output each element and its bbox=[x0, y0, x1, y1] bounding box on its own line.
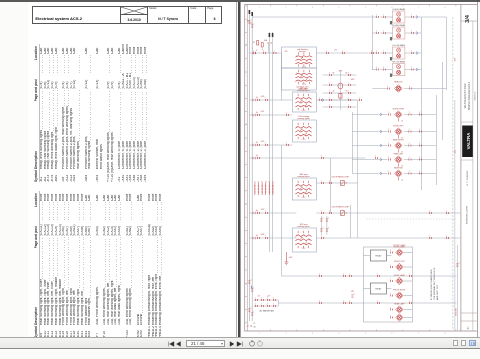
svg-text:2 5 6: 2 5 6 bbox=[301, 110, 305, 112]
svg-text:REAR RIGHT: REAR RIGHT bbox=[392, 138, 404, 141]
bus tap marks lower left bbox=[248, 280, 256, 329]
svg-text:-X1: -X1 bbox=[334, 50, 337, 52]
svg-text:1: 1 bbox=[376, 31, 377, 33]
svg-text:1: 1 bbox=[409, 86, 410, 88]
svg-text:1: 1 bbox=[383, 51, 384, 53]
svg-text:-X59: -X59 bbox=[454, 150, 456, 154]
svg-text:WORK RIGHT: WORK RIGHT bbox=[392, 108, 405, 110]
svg-text:5: 5 bbox=[309, 239, 310, 241]
wire vertical x454 bbox=[453, 100, 455, 330]
title column info text bbox=[464, 81, 476, 329]
svg-text:1: 1 bbox=[348, 83, 349, 85]
relay K1 box with flashing function bbox=[281, 47, 316, 69]
svg-text:1: 1 bbox=[257, 98, 258, 100]
svg-text:1: 1 bbox=[348, 91, 349, 93]
svg-text:RH LOW BEAM: RH LOW BEAM bbox=[392, 61, 405, 64]
svg-text:1: 1 bbox=[429, 236, 430, 238]
svg-text:1: 1 bbox=[377, 274, 378, 276]
svg-text:1: 1 bbox=[329, 98, 330, 100]
connector bus taps bottom bbox=[248, 308, 254, 316]
svg-text:3: 3 bbox=[312, 333, 313, 335]
svg-text:5: 5 bbox=[309, 102, 310, 104]
svg-text:1: 1 bbox=[322, 218, 323, 220]
svg-text:1: 1 bbox=[411, 31, 412, 33]
wire bus pair 15/56 bbox=[267, 32, 273, 252]
connector X31 bbox=[257, 111, 264, 116]
connector pairs small scattered bbox=[286, 51, 379, 304]
connector stacks x320 y213-238 bbox=[320, 216, 329, 235]
svg-text:2 5 6: 2 5 6 bbox=[301, 197, 305, 199]
svg-text:2: 2 bbox=[296, 235, 297, 237]
title cell Electrical system ACS.2 bbox=[33, 7, 120, 23]
svg-text:1: 1 bbox=[390, 315, 391, 317]
svg-text:RELAY: RELAY bbox=[375, 288, 382, 291]
svg-text:1: 1 bbox=[267, 298, 268, 300]
svg-text:1: 1 bbox=[376, 51, 377, 53]
svg-text:WORK LEFT: WORK LEFT bbox=[393, 125, 404, 127]
svg-text:RH HIGH BEAM: RH HIGH BEAM bbox=[392, 24, 406, 27]
svg-text:LED MARKER AIR: LED MARKER AIR bbox=[258, 310, 274, 313]
svg-text:WORKING LIGHTS: WORKING LIGHTS bbox=[466, 205, 468, 224]
svg-text:-X57: -X57 bbox=[260, 209, 264, 211]
wire vertical x357 bbox=[356, 100, 358, 238]
svg-text:1: 1 bbox=[267, 304, 268, 306]
svg-text:THE NORMAL DUTTER LIGHTS: THE NORMAL DUTTER LIGHTS bbox=[432, 267, 435, 300]
svg-text:a: a bbox=[252, 48, 253, 50]
svg-text:2: 2 bbox=[296, 185, 297, 187]
svg-text:1: 1 bbox=[408, 129, 409, 131]
svg-text:1: 1 bbox=[376, 67, 377, 69]
svg-text:VALTRA: VALTRA bbox=[466, 133, 471, 150]
svg-text:5: 5 bbox=[309, 189, 310, 191]
svg-text:1: 1 bbox=[250, 280, 251, 282]
VALTRA logo bbox=[462, 126, 473, 158]
front lamp group enclosure bbox=[363, 244, 412, 322]
svg-text:1: 1 bbox=[383, 15, 384, 17]
svg-text:2 5 6: 2 5 6 bbox=[302, 84, 306, 86]
svg-text:1: 1 bbox=[348, 105, 349, 107]
svg-text:1: 1 bbox=[257, 113, 258, 115]
svg-text:1: 1 bbox=[328, 218, 329, 220]
svg-text:1: 1 bbox=[383, 67, 384, 69]
svg-text:1: 1 bbox=[419, 171, 420, 173]
svg-text:1: 1 bbox=[408, 157, 409, 159]
svg-text:1: 1 bbox=[411, 51, 412, 53]
svg-text:1: 1 bbox=[250, 20, 251, 22]
svg-text:2 5 6: 2 5 6 bbox=[301, 139, 305, 141]
svg-text:1: 1 bbox=[343, 274, 344, 276]
svg-text:30: 30 bbox=[332, 91, 334, 93]
connector X58 bbox=[257, 234, 267, 239]
lamp E31 bbox=[390, 261, 412, 271]
model cell N / T Syncro bbox=[147, 7, 188, 23]
wire vertical x457 bbox=[456, 245, 458, 330]
svg-text:GROUND: GROUND bbox=[455, 307, 457, 316]
connectors on feed wires left bbox=[319, 156, 345, 304]
page navigation controls bbox=[167, 340, 267, 348]
svg-text:1: 1 bbox=[286, 113, 287, 115]
svg-text:2: 2 bbox=[285, 333, 286, 335]
svg-text:3/4: 3/4 bbox=[465, 14, 471, 23]
wire vertical x350 bbox=[349, 205, 351, 238]
wire feed y145 bbox=[249, 144, 292, 146]
component table group A (rotated) bbox=[33, 44, 229, 182]
svg-text:1: 1 bbox=[257, 156, 258, 158]
svg-text:1: 1 bbox=[261, 304, 262, 306]
svg-text:30A: 30A bbox=[263, 39, 267, 42]
svg-text:1: 1 bbox=[388, 157, 389, 159]
svg-text:86: 86 bbox=[332, 73, 334, 75]
svg-text:+T2: +T2 bbox=[257, 296, 260, 298]
svg-text:-X30: -X30 bbox=[260, 96, 264, 98]
svg-text:1: 1 bbox=[265, 98, 266, 100]
svg-text:1: 1 bbox=[253, 312, 254, 314]
svg-text:1: 1 bbox=[328, 228, 329, 230]
svg-text:30: 30 bbox=[345, 213, 347, 215]
svg-text:-X31: -X31 bbox=[260, 111, 264, 113]
lamp E15 lh high beam bbox=[372, 8, 421, 24]
svg-text:1: 1 bbox=[388, 171, 389, 173]
revision cell with crossed box and date bbox=[120, 7, 147, 23]
svg-text:1: 1 bbox=[273, 304, 274, 306]
svg-text:1: 1 bbox=[319, 274, 320, 276]
svg-text:1: 1 bbox=[446, 236, 447, 238]
svg-text:1: 1 bbox=[408, 143, 409, 145]
svg-text:2: 2 bbox=[285, 7, 286, 9]
svg-text:1: 1 bbox=[321, 236, 322, 238]
svg-text:VALTRA ACS N/T 2010: VALTRA ACS N/T 2010 bbox=[464, 83, 467, 108]
wire feed y53 bbox=[249, 52, 372, 54]
wire feed y158 bbox=[249, 157, 365, 159]
svg-text:1: 1 bbox=[371, 51, 372, 53]
relay module lower bbox=[363, 283, 391, 294]
svg-text:1: 1 bbox=[321, 156, 322, 158]
svg-text:FRONT RIGHT: FRONT RIGHT bbox=[393, 289, 406, 291]
connector column cluster y183-195 bbox=[254, 181, 274, 195]
svg-text:WORK LAMP: WORK LAMP bbox=[394, 274, 406, 277]
svg-text:1: 1 bbox=[342, 51, 343, 53]
svg-text:1: 1 bbox=[322, 228, 323, 230]
switch S12 front working lights bbox=[292, 87, 316, 112]
svg-text:1: 1 bbox=[329, 105, 330, 107]
schematic frame border bbox=[244, 5, 477, 332]
relay module upper bbox=[363, 250, 391, 261]
svg-text:7: 7 bbox=[418, 333, 419, 335]
connector X1 bbox=[326, 50, 344, 55]
svg-text:a3: a3 bbox=[261, 181, 263, 183]
right page edge bbox=[477, 2, 478, 337]
lamp E46 bbox=[390, 314, 412, 321]
svg-text:-K80: -K80 bbox=[350, 79, 354, 81]
LEFT PAGE bbox=[28, 2, 236, 337]
svg-text:2 5 6: 2 5 6 bbox=[302, 67, 306, 69]
svg-text:a1: a1 bbox=[254, 181, 256, 183]
svg-text:1: 1 bbox=[343, 301, 344, 303]
svg-text:31: 31 bbox=[253, 323, 255, 325]
connector X57 bbox=[257, 209, 267, 214]
svg-text:5: 5 bbox=[309, 131, 310, 133]
svg-text:1: 1 bbox=[446, 211, 447, 213]
RIGHT PAGE bbox=[241, 2, 477, 337]
svg-text:function: function bbox=[299, 50, 306, 53]
svg-text:-G92: -G92 bbox=[288, 257, 292, 259]
note xenon lights bbox=[429, 267, 438, 300]
svg-text:56: 56 bbox=[271, 42, 273, 44]
svg-text:1: 1 bbox=[390, 265, 391, 267]
page number 3/4 bbox=[465, 14, 471, 23]
svg-text:REAR LEFT: REAR LEFT bbox=[393, 152, 404, 155]
connectors on feed wires right bbox=[409, 211, 448, 304]
wire supply bus 15 bbox=[251, 12, 253, 327]
svg-text:1: 1 bbox=[408, 112, 409, 114]
svg-text:-X9: -X9 bbox=[267, 296, 270, 298]
lamp E9 work right bbox=[352, 108, 436, 122]
svg-text:1: 1 bbox=[349, 301, 350, 303]
svg-text:a4: a4 bbox=[265, 181, 267, 183]
wire feed y115 bbox=[249, 114, 292, 116]
svg-text:1: 1 bbox=[388, 143, 389, 145]
component table group B (rotated) bbox=[33, 191, 229, 338]
connector pairs on wire y53 bbox=[253, 51, 276, 54]
svg-text:87: 87 bbox=[345, 91, 347, 93]
svg-text:1: 1 bbox=[353, 294, 354, 296]
svg-text:REAR MID: REAR MID bbox=[394, 166, 403, 169]
svg-text:1: 1 bbox=[419, 157, 420, 159]
svg-text:1: 1 bbox=[263, 51, 264, 53]
svg-text:1: 1 bbox=[429, 211, 430, 213]
svg-text:IF XENON LIGHTS ARE USED: IF XENON LIGHTS ARE USED bbox=[429, 269, 432, 300]
svg-text:2: 2 bbox=[296, 56, 297, 58]
svg-text:1: 1 bbox=[411, 67, 412, 69]
svg-text:1: 1 bbox=[349, 274, 350, 276]
switch S84 max working lights bbox=[292, 174, 316, 200]
svg-text:1: 1 bbox=[383, 31, 384, 33]
switch S13 rotating warning lights bbox=[292, 115, 316, 142]
lamp E17 lh low beam bbox=[372, 44, 421, 60]
svg-text:2: 2 bbox=[296, 73, 297, 75]
wire dashed vertical x452 bbox=[451, 17, 453, 330]
svg-text:a2: a2 bbox=[258, 181, 260, 183]
wire vertical x436 bbox=[435, 95, 437, 185]
wire feed y100 bbox=[249, 99, 360, 101]
TOOLBAR bbox=[0, 337, 480, 348]
lamp E11 rear right bbox=[352, 138, 436, 153]
code cell bbox=[188, 7, 205, 23]
connector X39 bbox=[257, 141, 267, 146]
svg-text:1: 1 bbox=[255, 304, 256, 306]
svg-text:1: 1 bbox=[388, 129, 389, 131]
wire vertical x372 bbox=[371, 15, 373, 70]
svg-text:WIRING DIAGRAM ACS.2: WIRING DIAGRAM ACS.2 bbox=[467, 81, 470, 110]
svg-text:4: 4 bbox=[338, 7, 339, 9]
wire top feed y17 bbox=[252, 16, 446, 18]
svg-text:31: 31 bbox=[401, 180, 403, 182]
window top edge bbox=[0, 0, 480, 2]
svg-text:1: 1 bbox=[409, 274, 410, 276]
wire vertical x421 bbox=[420, 17, 422, 190]
view mode icons bbox=[450, 340, 476, 358]
wire vertical x442 bbox=[441, 62, 443, 140]
svg-text:N / T SYNCRO: N / T SYNCRO bbox=[466, 170, 468, 185]
svg-text:WORK LAMP: WORK LAMP bbox=[394, 245, 406, 248]
svg-text:5: 5 bbox=[309, 77, 310, 79]
relay coil K79 K80 bbox=[322, 70, 356, 110]
svg-text:15: 15 bbox=[255, 50, 257, 52]
svg-text:1: 1 bbox=[265, 143, 266, 145]
svg-text:1: 1 bbox=[259, 7, 260, 9]
connector on wire y158 bbox=[257, 156, 259, 159]
svg-text:1: 1 bbox=[265, 236, 266, 238]
svg-text:31: 31 bbox=[401, 121, 403, 123]
junction tags at bus exits bbox=[253, 50, 257, 239]
svg-text:1: 1 bbox=[329, 181, 330, 183]
svg-text:5: 5 bbox=[365, 7, 366, 9]
svg-text:working lights: working lights bbox=[297, 89, 309, 92]
svg-text:-K79: -K79 bbox=[338, 71, 342, 73]
svg-text:1: 1 bbox=[376, 15, 377, 17]
svg-text:LH LOW BEAM: LH LOW BEAM bbox=[392, 44, 405, 47]
wire labels right edge bbox=[454, 58, 459, 316]
connector W2 bbox=[350, 291, 354, 297]
wire feed y276 bbox=[281, 275, 456, 277]
svg-text:2: 2 bbox=[296, 127, 297, 129]
wire vertical x281 bbox=[280, 53, 282, 276]
page number box 21 / 45 bbox=[186, 340, 225, 347]
svg-text:8: 8 bbox=[444, 333, 445, 335]
fuse F7 30A bbox=[252, 39, 268, 53]
svg-text:LED WORKING LIGHT: LED WORKING LIGHT bbox=[331, 177, 348, 179]
svg-text:working lights: working lights bbox=[297, 175, 309, 178]
svg-text:1: 1 bbox=[390, 293, 391, 295]
svg-text:30: 30 bbox=[345, 183, 347, 185]
svg-text:1: 1 bbox=[253, 288, 254, 290]
svg-text:1: 1 bbox=[273, 298, 274, 300]
lamp E16 rh high beam bbox=[372, 24, 421, 40]
lamp E18 rh low beam bbox=[372, 61, 421, 77]
svg-text:1: 1 bbox=[253, 24, 254, 26]
svg-text:1: 1 bbox=[458, 263, 459, 265]
svg-text:1: 1 bbox=[329, 91, 330, 93]
ground G92 bbox=[284, 252, 292, 265]
svg-text:1: 1 bbox=[419, 112, 420, 114]
svg-text:1: 1 bbox=[387, 86, 388, 88]
switch S24 rear working lights bbox=[292, 224, 316, 252]
svg-text:7: 7 bbox=[418, 7, 419, 9]
svg-text:1: 1 bbox=[255, 298, 256, 300]
svg-text:B: B bbox=[245, 124, 246, 126]
svg-text:RELAY: RELAY bbox=[375, 255, 382, 258]
svg-text:6WD00.02: 6WD00.02 bbox=[474, 92, 476, 101]
svg-text:3: 3 bbox=[312, 7, 313, 9]
svg-text:1: 1 bbox=[319, 98, 320, 100]
lamp E43 bbox=[390, 274, 412, 285]
svg-text:1: 1 bbox=[257, 143, 258, 145]
svg-text:1: 1 bbox=[261, 298, 262, 300]
svg-text:A3: A3 bbox=[466, 326, 469, 329]
connector bus taps top bbox=[248, 20, 254, 28]
title column dividers bbox=[460, 21, 476, 331]
lamp E30 bbox=[390, 245, 412, 256]
grid reference labels bbox=[245, 5, 455, 336]
wire vertical x330 bbox=[329, 158, 331, 213]
svg-text:1: 1 bbox=[319, 301, 320, 303]
svg-text:1: 1 bbox=[359, 98, 360, 100]
svg-text:1: 1 bbox=[329, 83, 330, 85]
title block bbox=[32, 6, 221, 24]
svg-text:1: 1 bbox=[419, 129, 420, 131]
svg-text:1: 1 bbox=[257, 211, 258, 213]
wire feed y303 bbox=[278, 302, 456, 304]
lamp E10 work left bbox=[352, 125, 436, 139]
svg-text:2: 2 bbox=[296, 98, 297, 100]
svg-text:1: 1 bbox=[348, 98, 349, 100]
svg-text:LH HIGH BEAM: LH HIGH BEAM bbox=[392, 8, 405, 11]
svg-text:4: 4 bbox=[338, 333, 339, 335]
svg-text:ARE LEFT OUT: ARE LEFT OUT bbox=[435, 284, 438, 300]
svg-text:1: 1 bbox=[253, 51, 254, 53]
svg-text:-F7: -F7 bbox=[252, 42, 255, 44]
svg-text:1: 1 bbox=[419, 143, 420, 145]
svg-text:BEACON: BEACON bbox=[394, 81, 403, 84]
svg-text:1: 1 bbox=[388, 112, 389, 114]
page separator lines bbox=[236, 2, 237, 337]
lamp E13 rear mid bbox=[352, 166, 436, 181]
LED marker connector cluster T2/X9 bbox=[253, 296, 278, 313]
svg-text:1: 1 bbox=[390, 250, 391, 252]
svg-text:1: 1 bbox=[409, 301, 410, 303]
svg-text:5: 5 bbox=[309, 59, 310, 61]
svg-text:1: 1 bbox=[273, 51, 274, 53]
svg-text:1: 1 bbox=[377, 301, 378, 303]
svg-text:a6: a6 bbox=[272, 181, 274, 183]
svg-text:15: 15 bbox=[267, 42, 269, 44]
svg-text:58L: 58L bbox=[253, 327, 256, 329]
relay contact K73 upper bbox=[316, 177, 357, 186]
svg-text:-X48: -X48 bbox=[454, 58, 456, 62]
svg-text:-X39: -X39 bbox=[260, 141, 264, 143]
svg-text:85: 85 bbox=[345, 73, 347, 75]
svg-text:a5: a5 bbox=[268, 181, 270, 183]
svg-text:1: 1 bbox=[390, 279, 391, 281]
connector X30 bbox=[257, 96, 267, 101]
lamp beacon bbox=[372, 81, 446, 93]
svg-text:31: 31 bbox=[247, 325, 249, 327]
svg-text:FRONT LEFT: FRONT LEFT bbox=[393, 261, 405, 263]
wire supply bus 30 bbox=[247, 10, 250, 327]
svg-text:-S9: -S9 bbox=[284, 51, 287, 53]
svg-text:1: 1 bbox=[321, 211, 322, 213]
svg-text:5: 5 bbox=[365, 333, 366, 335]
svg-text:1: 1 bbox=[321, 181, 322, 183]
svg-text:1: 1 bbox=[408, 171, 409, 173]
lamp E45 bbox=[390, 302, 412, 313]
svg-text:warning lights: warning lights bbox=[297, 117, 309, 120]
page cell 6 bbox=[205, 7, 223, 23]
svg-text:working lights: working lights bbox=[297, 225, 309, 228]
lamp E44 bbox=[390, 289, 412, 299]
svg-text:1: 1 bbox=[250, 308, 251, 310]
wire feed y213 bbox=[249, 212, 460, 214]
svg-text:1: 1 bbox=[348, 73, 349, 75]
lamp E12 rear left bbox=[352, 152, 436, 167]
wire optional dashed y219 bbox=[366, 218, 456, 220]
wire vertical x446 bbox=[445, 17, 447, 90]
svg-text:1: 1 bbox=[375, 156, 376, 158]
wire feed y238 bbox=[249, 237, 460, 239]
svg-text:1: 1 bbox=[411, 15, 412, 17]
svg-text:6: 6 bbox=[391, 333, 392, 335]
relay K2 box with flash after switch-off bbox=[281, 68, 316, 91]
